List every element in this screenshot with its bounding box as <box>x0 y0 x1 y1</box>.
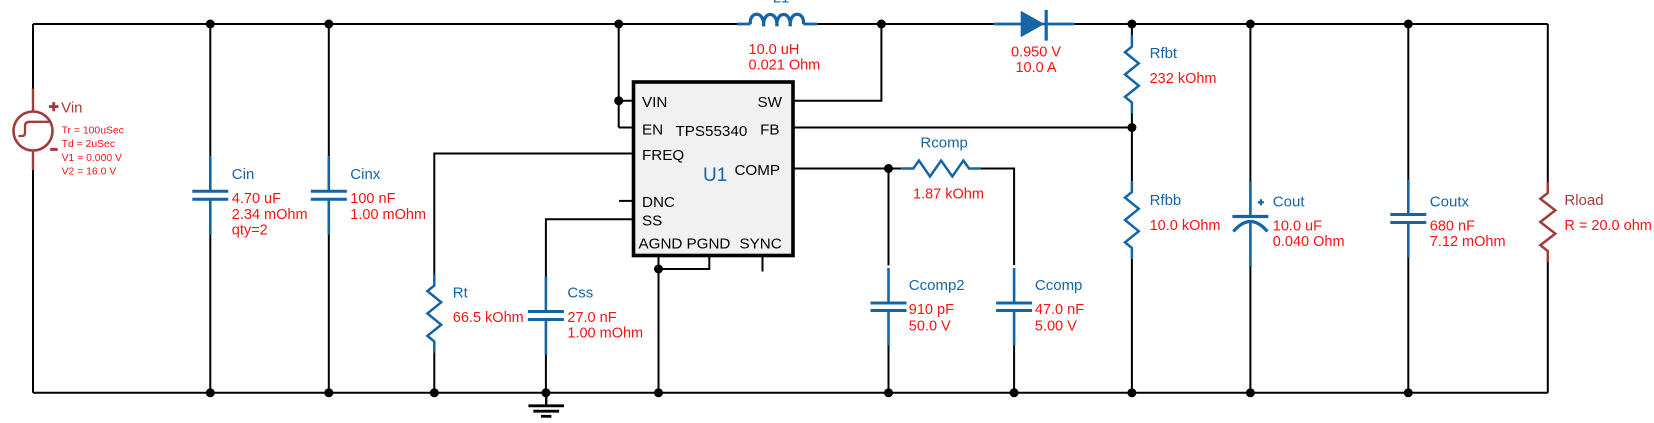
svg-text:U1: U1 <box>703 165 727 186</box>
svg-text:4.70 uF: 4.70 uF <box>232 191 281 207</box>
svg-text:Rt: Rt <box>453 285 469 302</box>
svg-text:910 pF: 910 pF <box>909 302 954 318</box>
svg-text:10.0 uH: 10.0 uH <box>749 42 800 58</box>
value Css <box>567 310 643 342</box>
svg-text:Vin: Vin <box>61 100 82 117</box>
junction dots bottom rail <box>206 388 1413 397</box>
svg-text:2.34 mOhm: 2.34 mOhm <box>232 207 308 223</box>
svg-text:10.0 A: 10.0 A <box>1015 60 1056 76</box>
wire Rfbb branch <box>1131 128 1133 393</box>
svg-text:Cout: Cout <box>1273 194 1306 211</box>
wire top rail <box>33 23 1548 25</box>
svg-text:Css: Css <box>567 285 593 302</box>
wire bottom rail <box>33 392 1548 394</box>
svg-text:Rcomp: Rcomp <box>920 134 968 151</box>
svg-text:232 kOhm: 232 kOhm <box>1150 71 1217 87</box>
svg-text:0.040 Ohm: 0.040 Ohm <box>1273 234 1345 250</box>
svg-text:50.0 V: 50.0 V <box>909 318 951 334</box>
svg-text:PGND: PGND <box>687 236 731 253</box>
svg-text:Cin: Cin <box>232 166 255 183</box>
wire Cout branch <box>1249 24 1251 393</box>
wire Rload branch <box>1547 24 1549 393</box>
wire left edge (Vin branch) <box>32 24 34 393</box>
op-amp / IC U1 TPS55340 <box>634 82 794 256</box>
svg-text:66.5 kOhm: 66.5 kOhm <box>453 310 524 326</box>
value Vin parameters <box>62 125 124 177</box>
svg-text:L1: L1 <box>773 0 790 7</box>
value Cinx <box>350 191 426 223</box>
capacitor Cin <box>192 156 228 234</box>
value Ccomp <box>1035 302 1084 334</box>
svg-text:DNC: DNC <box>642 194 675 211</box>
node COMP junction <box>884 164 893 173</box>
ground symbol <box>528 393 564 417</box>
svg-text:AGND: AGND <box>639 236 683 253</box>
svg-text:Rfbt: Rfbt <box>1150 45 1178 62</box>
svg-text:0.021 Ohm: 0.021 Ohm <box>749 58 821 74</box>
wire Cin branch <box>209 24 211 393</box>
wire Coutx branch <box>1407 24 1409 393</box>
node VIN/EN junction <box>614 96 623 105</box>
svg-text:Tr = 100uSec: Tr = 100uSec <box>62 125 124 136</box>
wire SS to Css <box>546 219 634 392</box>
svg-text:10.0 kOhm: 10.0 kOhm <box>1150 218 1221 234</box>
resistor Rt <box>427 275 441 353</box>
value Cin <box>232 191 308 238</box>
wire DNC stub <box>619 200 634 202</box>
svg-text:Cinx: Cinx <box>350 166 381 183</box>
value Coutx <box>1430 219 1506 251</box>
value D1 <box>1011 45 1061 77</box>
node AGND/PGND junction <box>654 265 663 274</box>
svg-text:Rload: Rload <box>1564 192 1603 209</box>
svg-text:10.0 uF: 10.0 uF <box>1273 219 1322 235</box>
svg-text:VIN: VIN <box>642 94 667 111</box>
svg-text:27.0 nF: 27.0 nF <box>567 310 616 326</box>
resistor Rfbb <box>1125 181 1139 259</box>
resistor Rfbt <box>1125 36 1139 114</box>
svg-text:Coutx: Coutx <box>1430 194 1470 211</box>
wire AGND/PGND to ground rail <box>659 256 710 393</box>
resistor Rload <box>1540 182 1555 262</box>
capacitor Ccomp2 <box>871 268 907 346</box>
capacitor Css <box>528 277 564 355</box>
svg-text:EN: EN <box>642 122 663 139</box>
wire Ccomp2 branch <box>888 169 890 393</box>
svg-text:V2 = 16.0 V: V2 = 16.0 V <box>62 167 117 178</box>
junction dots top rail <box>206 20 1413 29</box>
svg-text:V1 = 0.000 V: V1 = 0.000 V <box>62 153 122 164</box>
svg-text:0.950 V: 0.950 V <box>1011 45 1061 61</box>
wire VIN/EN to top rail <box>619 24 634 128</box>
svg-text:SS: SS <box>642 213 662 230</box>
value L1 <box>749 42 821 74</box>
svg-text:100 nF: 100 nF <box>350 191 395 207</box>
svg-text:Ccomp: Ccomp <box>1035 277 1083 294</box>
svg-text:qty=2: qty=2 <box>232 223 268 239</box>
svg-text:47.0 nF: 47.0 nF <box>1035 302 1084 318</box>
svg-text:TPS55340: TPS55340 <box>676 123 748 140</box>
svg-text:1.00 mOhm: 1.00 mOhm <box>350 207 426 223</box>
wire COMP / Rcomp run <box>793 169 1014 393</box>
resistor Rcomp <box>901 161 981 177</box>
svg-text:SYNC: SYNC <box>740 236 782 253</box>
svg-text:Td = 2uSec: Td = 2uSec <box>62 139 115 150</box>
capacitor Coutx <box>1390 180 1426 258</box>
wire FREQ to Rt <box>434 154 633 393</box>
capacitor Cout (polarized) <box>1232 182 1268 267</box>
svg-text:SW: SW <box>758 94 783 111</box>
capacitor Ccomp <box>996 268 1032 346</box>
wire SW to top rail <box>793 24 881 101</box>
svg-text:1.87 kOhm: 1.87 kOhm <box>913 186 984 202</box>
svg-text:680 nF: 680 nF <box>1430 219 1475 235</box>
svg-text:5.00 V: 5.00 V <box>1035 318 1077 334</box>
wire Rfbt branch <box>1131 24 1133 128</box>
svg-text:7.12 mOhm: 7.12 mOhm <box>1430 234 1506 250</box>
wire SYNC stub <box>762 256 764 272</box>
value Cout <box>1273 219 1345 251</box>
svg-text:R = 20.0 ohm: R = 20.0 ohm <box>1564 218 1651 234</box>
value Ccomp2 <box>909 302 954 334</box>
svg-text:1.00 mOhm: 1.00 mOhm <box>567 326 643 342</box>
inductor L1 <box>737 14 817 26</box>
voltage source Vin <box>14 89 59 171</box>
svg-text:FB: FB <box>760 122 779 139</box>
wire FB to feedback node <box>793 127 1132 129</box>
svg-text:Ccomp2: Ccomp2 <box>909 277 965 294</box>
wire Cinx branch <box>328 24 330 393</box>
node FB junction <box>1127 123 1136 132</box>
diode D1 <box>993 10 1074 41</box>
svg-text:FREQ: FREQ <box>642 147 684 164</box>
svg-text:Rfbb: Rfbb <box>1150 192 1182 209</box>
capacitor Cinx <box>311 156 347 234</box>
svg-text:COMP: COMP <box>734 162 780 179</box>
